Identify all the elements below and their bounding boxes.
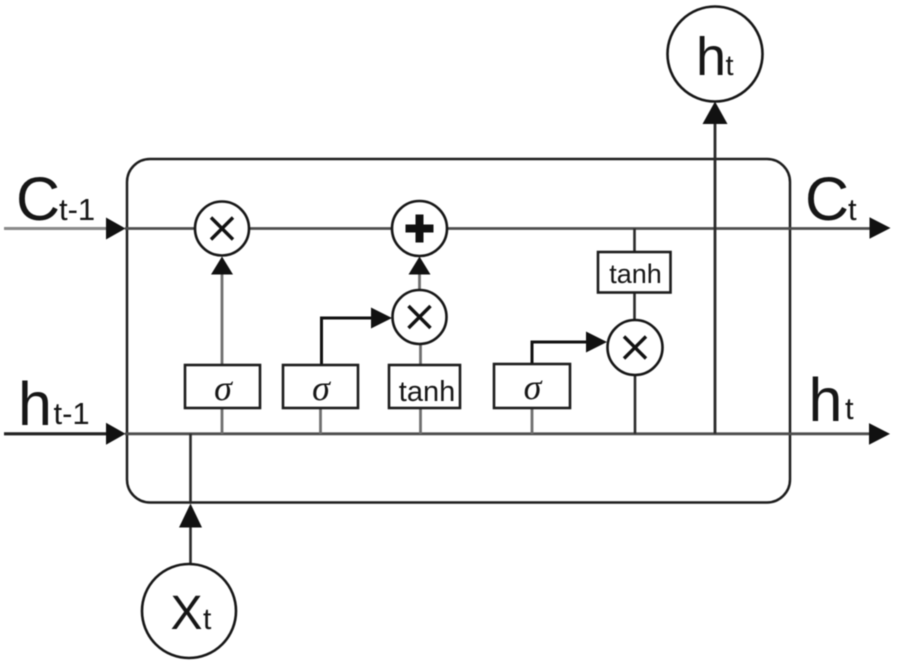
svg-text:X: X — [171, 587, 203, 640]
svg-text:t: t — [848, 192, 857, 227]
svg-text:σ: σ — [312, 368, 331, 408]
svg-text:t: t — [203, 603, 212, 636]
svg-text:h: h — [696, 27, 726, 87]
svg-text:C: C — [805, 165, 849, 233]
svg-text:t: t — [726, 50, 734, 82]
svg-text:σ: σ — [214, 368, 233, 408]
svg-text:σ: σ — [524, 367, 543, 407]
svg-text:t: t — [845, 391, 854, 426]
svg-text:t-1: t-1 — [59, 192, 95, 227]
svg-text:h: h — [809, 366, 843, 434]
svg-text:t-1: t-1 — [54, 396, 90, 431]
svg-text:C: C — [16, 165, 60, 233]
svg-text:tanh: tanh — [399, 376, 455, 408]
svg-text:h: h — [18, 370, 52, 438]
svg-text:tanh: tanh — [609, 259, 662, 289]
